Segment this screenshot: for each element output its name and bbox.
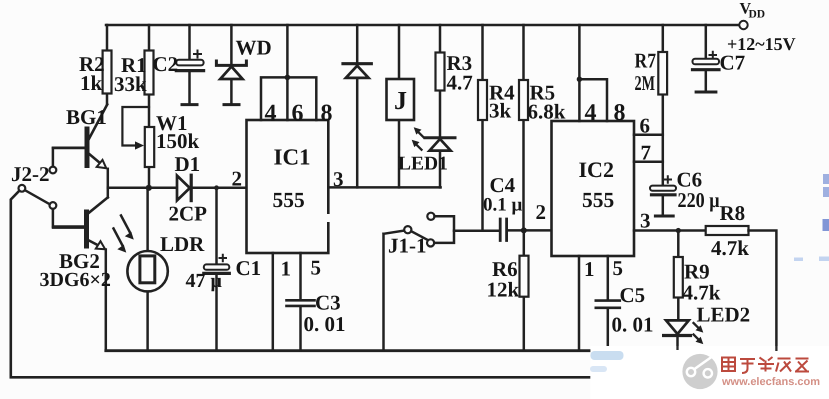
svg-text:4.7: 4.7 [447,71,473,95]
svg-text:2M: 2M [635,71,656,95]
svg-text:150k: 150k [156,129,200,153]
svg-text:+12~15V: +12~15V [727,34,796,54]
resistor R1 [145,25,154,188]
svg-text:47 μ: 47 μ [186,270,223,292]
wire inner ground rail [106,349,589,352]
svg-text:33k: 33k [114,72,147,96]
svg-text:IC1: IC1 [274,145,311,170]
LED2 [664,320,704,349]
connector J2-2 [19,148,85,227]
resistor R6 [520,230,529,350]
resistor R8 [706,226,777,351]
svg-text:3k: 3k [489,99,512,123]
diode VD freewheel [343,25,371,187]
svg-text:1k: 1k [80,71,103,95]
capacitor C6 [650,176,676,216]
svg-text:6.8k: 6.8k [528,100,566,124]
diode D1 [177,175,191,200]
svg-text:12k: 12k [487,278,520,302]
svg-text:J2-2: J2-2 [11,162,50,186]
wire IC1 pin1 [272,253,275,351]
svg-text:6: 6 [640,114,651,138]
relay coil J [387,25,415,187]
svg-text:BG1: BG1 [66,105,107,129]
svg-text:C1: C1 [236,256,262,280]
svg-text:LED2: LED2 [697,303,751,327]
resistor R5 [519,25,528,230]
svg-text:C5: C5 [620,283,646,307]
node junction C4/R5/R6 [521,227,527,233]
capacitor C1 [204,188,230,351]
svg-text:4: 4 [585,100,597,126]
zener diode WD [216,25,246,105]
wire top VDD rail [106,24,739,27]
capacitor C5 [596,256,620,346]
wire IC1 pins 4 6 8 bracket [261,25,316,120]
wire IC2 pins 4 8 [577,25,607,121]
node junction W1/LDR [146,185,152,191]
resistor R9 [674,231,683,321]
svg-text:DD: DD [749,9,766,21]
svg-text:220 μ: 220 μ [678,188,720,212]
svg-text:C3: C3 [315,291,341,315]
resistor R3 [436,25,445,138]
svg-text:3: 3 [640,209,651,233]
op-amp IC1 555 box [247,120,329,253]
svg-text:4: 4 [265,101,277,127]
node VDD terminal [739,21,747,29]
resistor R4 [478,25,487,230]
svg-text:2: 2 [536,200,547,224]
svg-text:3: 3 [333,167,344,191]
svg-text:C7: C7 [720,51,746,75]
svg-text:4.7k: 4.7k [711,236,749,260]
svg-text:IC2: IC2 [579,157,614,182]
wire IC1 pin3 row [328,186,440,189]
svg-text:0. 01: 0. 01 [304,312,346,336]
svg-text:8: 8 [614,100,626,126]
wire outer ground loop from J2-2 [11,191,589,377]
wire IC2 pin1 [578,256,581,351]
resistor R2 [103,25,112,104]
svg-text:5: 5 [311,256,322,280]
capacitor C3 [287,253,315,351]
svg-text:J: J [394,86,407,115]
svg-text:2CP: 2CP [169,202,208,226]
wire IC2 pins 6 7 bracket [634,135,663,162]
svg-text:7: 7 [641,141,652,165]
svg-text:R8: R8 [720,201,746,225]
capacitor C7 [693,25,720,92]
svg-text:0. 01: 0. 01 [612,313,654,337]
wire pin2 row (D1 row) [108,186,247,189]
wire IC2 pin3 row [634,229,706,232]
LED1 [412,127,455,187]
svg-text:C2: C2 [153,52,179,76]
photoresistor LDR [114,188,168,351]
svg-text:3DG6×2: 3DG6×2 [40,269,111,291]
transistor BG1 [53,105,108,198]
svg-text:LDR: LDR [160,232,205,256]
svg-text:LED1: LED1 [398,154,448,175]
svg-text:R7: R7 [635,49,657,73]
svg-text:WD: WD [236,36,272,60]
svg-text:1: 1 [281,257,292,281]
svg-text:5: 5 [613,256,624,280]
svg-text:8: 8 [321,101,333,127]
watermark chinese glyphs [722,357,809,373]
svg-text:4.7k: 4.7k [683,281,721,305]
svg-text:D1: D1 [175,152,201,176]
svg-text:555: 555 [273,188,305,212]
svg-text:1: 1 [584,257,595,281]
potentiometer W1 [122,107,154,167]
switch contact J1-1 [384,213,455,351]
resistor R7 [658,25,667,186]
node junction R9 [676,228,681,233]
svg-text:www.elecfans.com: www.elecfans.com [721,376,820,388]
capacitor C4 [454,219,552,241]
svg-text:J1-1: J1-1 [388,234,427,258]
watermark elecfans [590,346,829,399]
svg-text:0.1 μ: 0.1 μ [483,195,523,216]
svg-text:555: 555 [582,188,614,212]
svg-text:2: 2 [232,167,243,191]
op-amp IC2 555 box [552,121,635,256]
watermark blue edge marks [794,174,829,261]
svg-text:6: 6 [292,101,304,127]
node junction C1 tap [214,185,219,190]
transistor BG2 [53,197,108,350]
svg-text:C4: C4 [490,173,516,197]
capacitor C2 [176,25,203,105]
